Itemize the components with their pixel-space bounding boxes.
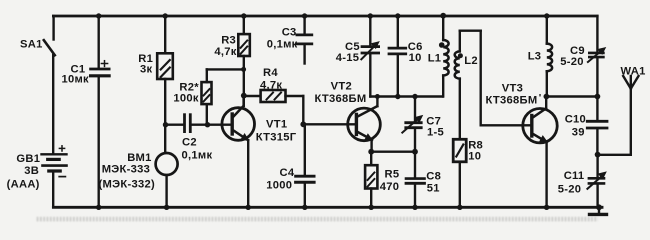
- resistor R5: [365, 152, 377, 208]
- svg-text:1000: 1000: [266, 180, 292, 192]
- svg-text:C3: C3: [282, 26, 297, 38]
- capacitor C8: [406, 152, 425, 208]
- node VT3 collector: [544, 94, 550, 100]
- page ghost band: [36, 217, 598, 222]
- svg-text:R5: R5: [385, 168, 400, 180]
- svg-text:(МЭК-332): (МЭК-332): [99, 179, 155, 191]
- wire oscillator collector node: [370, 95, 442, 97]
- resistor R1: [157, 16, 173, 153]
- svg-text:100к: 100к: [173, 92, 199, 104]
- microphone BM1: [156, 153, 178, 175]
- node bottom rail C1: [96, 205, 101, 210]
- node top rail L1: [440, 13, 446, 19]
- svg-text:0,1мк: 0,1мк: [267, 39, 298, 51]
- svg-text:C9: C9: [570, 45, 585, 57]
- svg-text:0,1мк: 0,1мк: [182, 150, 213, 162]
- battery GB1: [42, 146, 67, 206]
- svg-text:WA1: WA1: [621, 65, 646, 77]
- svg-text:51: 51: [427, 182, 440, 194]
- node bottom rail C4: [302, 205, 307, 210]
- node VT2 emitter: [368, 149, 374, 155]
- wire emitter node VT2: [371, 150, 415, 152]
- svg-text:5-20: 5-20: [560, 56, 584, 68]
- node bottom rail VT3 emitter: [544, 205, 549, 210]
- node bottom rail BM1: [164, 205, 169, 210]
- svg-text:3к: 3к: [140, 64, 153, 76]
- svg-text:VT1: VT1: [266, 119, 287, 131]
- node mic base: [163, 122, 168, 127]
- svg-text:GB1: GB1: [16, 153, 40, 165]
- node top rail C6: [395, 13, 400, 18]
- capacitor C3: [297, 16, 312, 64]
- node bottom rail R8: [457, 205, 462, 210]
- inductor L1: [439, 16, 449, 97]
- svg-text:1-5: 1-5: [427, 127, 444, 139]
- node R2 feedback: [241, 67, 246, 72]
- svg-text:4-15: 4-15: [336, 52, 360, 64]
- transistor VT1: [208, 95, 255, 207]
- antenna WA1: [598, 76, 639, 155]
- inductor L2: [455, 31, 530, 140]
- svg-text:SA1: SA1: [20, 39, 43, 51]
- svg-text:C2: C2: [182, 136, 197, 148]
- node top rail L3: [544, 13, 549, 18]
- svg-text:': ': [539, 92, 542, 104]
- svg-text:470: 470: [380, 181, 400, 193]
- capacitor C2: [166, 115, 208, 132]
- node VT1 base: [205, 122, 210, 127]
- capacitor C11 variable: [587, 155, 606, 208]
- transistor VT2: [348, 97, 381, 152]
- capacitor C5 variable: [361, 16, 379, 97]
- svg-text:4,7к: 4,7к: [214, 46, 236, 58]
- svg-text:39: 39: [572, 126, 585, 138]
- svg-text:(ААА): (ААА): [7, 179, 40, 191]
- wire bottom ground rail: [53, 206, 602, 209]
- node VT2 collector: [375, 94, 380, 99]
- inductor L3: [547, 16, 552, 97]
- node C9 PA: [595, 94, 601, 100]
- svg-text:C6: C6: [408, 41, 423, 53]
- node top rail C3: [302, 13, 307, 18]
- wire PA collector node: [546, 95, 597, 97]
- node C7 tank: [412, 94, 417, 99]
- capacitor C7 variable: [402, 97, 422, 152]
- svg-text:КТ315Г: КТ315Г: [256, 131, 297, 143]
- resistor R3: [238, 16, 250, 106]
- svg-text:R4: R4: [263, 67, 278, 79]
- capacitor C9 variable: [588, 16, 605, 97]
- node top rail C1: [96, 13, 101, 18]
- svg-text:R3: R3: [221, 34, 236, 46]
- node VT2 base: [300, 121, 306, 127]
- node C6 tank: [395, 94, 400, 99]
- resistor R2*: [202, 69, 243, 124]
- svg-text:10: 10: [409, 52, 422, 64]
- ground chassis bar: [590, 207, 607, 214]
- svg-text:МЭК-333: МЭК-333: [102, 163, 150, 175]
- switch SA1: [44, 16, 55, 153]
- capacitor C6: [389, 16, 406, 97]
- resistor R8: [453, 139, 466, 207]
- transistor VT3: [523, 97, 557, 208]
- resistor R4: [244, 90, 355, 124]
- svg-text:L1: L1: [428, 53, 442, 65]
- svg-text:L2: L2: [464, 55, 478, 67]
- node antenna C10: [595, 152, 601, 158]
- svg-text:10мк: 10мк: [62, 73, 90, 85]
- node VT1 collector: [241, 93, 247, 99]
- capacitor C10: [587, 97, 607, 155]
- capacitor C4: [296, 124, 315, 207]
- svg-text:4,7к: 4,7к: [260, 80, 282, 92]
- node bottom rail R5: [369, 205, 374, 210]
- svg-text:3В: 3В: [24, 165, 39, 177]
- node bottom rail C11 ground: [596, 204, 602, 210]
- svg-text:R8: R8: [468, 139, 483, 151]
- svg-text:VT2: VT2: [331, 81, 352, 93]
- svg-text:10: 10: [468, 151, 481, 163]
- node top rail C5: [368, 13, 373, 18]
- svg-text:C11: C11: [564, 170, 585, 182]
- svg-text:C8: C8: [426, 170, 441, 182]
- svg-text:C5: C5: [345, 41, 360, 53]
- wire top supply rail: [53, 15, 597, 18]
- svg-text:ВМ1: ВМ1: [127, 152, 151, 164]
- capacitor C1: [91, 16, 110, 207]
- svg-text:КТ368БМ: КТ368БМ: [315, 93, 367, 105]
- svg-text:5-20: 5-20: [558, 184, 582, 196]
- svg-text:КТ368БМ: КТ368БМ: [486, 95, 538, 107]
- svg-text:C10: C10: [565, 113, 586, 125]
- node bottom rail C8: [412, 205, 417, 210]
- svg-text:VT3: VT3: [502, 83, 523, 95]
- svg-text:L3: L3: [528, 51, 542, 63]
- node top rail R1: [163, 13, 168, 18]
- node top rail R3: [241, 13, 246, 18]
- svg-text:C4: C4: [280, 167, 295, 179]
- node C8 emitter: [412, 149, 418, 155]
- node bottom rail VT1 emitter: [246, 205, 251, 210]
